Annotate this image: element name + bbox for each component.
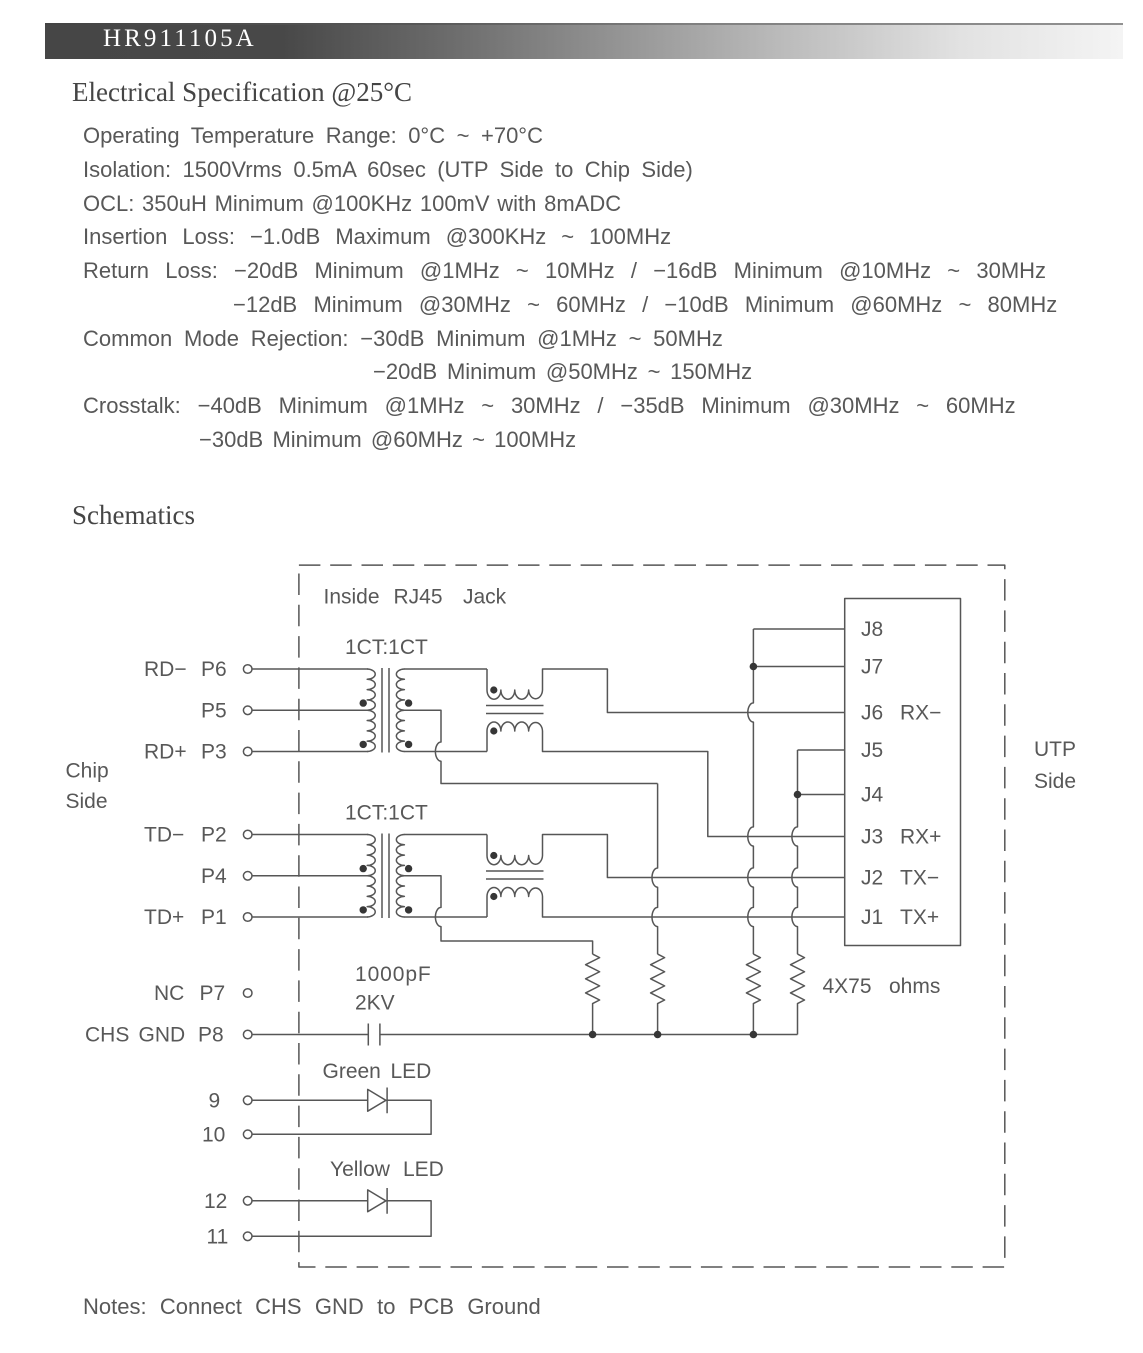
svg-text:LED: LED xyxy=(403,1158,444,1181)
svg-text:11: 11 xyxy=(207,1225,229,1248)
svg-text:TD+: TD+ xyxy=(144,906,184,929)
svg-text:P2: P2 xyxy=(201,824,227,847)
resistor R2 xyxy=(651,954,665,1034)
pin P2 terminal xyxy=(243,830,252,839)
wire J8 xyxy=(753,628,844,630)
svg-text:J6: J6 xyxy=(861,702,883,725)
svg-text:P7: P7 xyxy=(200,982,226,1005)
label Yellow LED xyxy=(330,1158,444,1181)
junction node J4 xyxy=(794,791,802,799)
svg-text:P6: P6 xyxy=(201,658,227,681)
heading: Schematics xyxy=(72,500,195,531)
wire P8 to capacitor C1 xyxy=(252,1034,368,1036)
pin labels chip side xyxy=(85,658,228,1248)
wire J5/J4 vertical to resistor R4, hops over J3 J2 J1 wires xyxy=(792,750,798,954)
pin 11 terminal xyxy=(243,1232,252,1241)
wire T2 secondary top to choke L2 xyxy=(404,834,487,836)
transformer T1 primary winding xyxy=(367,669,375,751)
pin 9 terminal xyxy=(243,1096,252,1105)
wire P6 to transformer T1 xyxy=(252,668,368,670)
svg-text:9: 9 xyxy=(209,1089,221,1112)
transformer T2 polarity dots xyxy=(360,865,413,914)
choke L1 polarity dots xyxy=(490,686,497,734)
svg-text:J7: J7 xyxy=(861,656,883,679)
LED D2 (Yellow) xyxy=(368,1188,387,1214)
svg-text:LED: LED xyxy=(391,1060,432,1083)
wire P2 to transformer T2 xyxy=(252,834,368,836)
junction node R1/bus xyxy=(589,1031,597,1039)
transformer T1 secondary winding xyxy=(396,669,404,751)
svg-text:Chip: Chip xyxy=(66,760,109,783)
wire J8/J7 vertical to resistor R3, hops over J6 J3 J2 J1 wires xyxy=(748,629,754,954)
resistor R1 xyxy=(586,954,600,1034)
svg-text:J2: J2 xyxy=(861,867,883,890)
svg-text:J4: J4 xyxy=(861,784,884,807)
choke L2 bottom winding xyxy=(487,887,845,917)
wire LED D2 to pin 11 xyxy=(252,1201,431,1237)
svg-text:12: 12 xyxy=(204,1190,227,1213)
svg-text:10: 10 xyxy=(202,1123,225,1146)
svg-text:NC: NC xyxy=(154,982,184,1005)
svg-text:Yellow: Yellow xyxy=(330,1158,391,1181)
wire T1 center tap to node, with hop over P3 wire xyxy=(404,710,658,783)
svg-text:P3: P3 xyxy=(201,741,227,764)
label 1000pF 2KV xyxy=(355,963,432,1015)
svg-text:Side: Side xyxy=(66,790,108,813)
resistor R3 xyxy=(746,954,760,1034)
wire LED D1 to pin 10 xyxy=(252,1100,431,1134)
svg-text:Side: Side xyxy=(1034,770,1076,793)
pin 10 terminal xyxy=(243,1130,252,1139)
transformer T1 core xyxy=(382,668,389,753)
svg-text:P1: P1 xyxy=(201,906,227,929)
wire J7 xyxy=(753,666,844,668)
transformer T2 secondary winding xyxy=(396,835,404,917)
ground bus wire from capacitor to resistors xyxy=(380,1034,798,1036)
choke L1 bottom winding xyxy=(487,722,845,837)
label Green LED xyxy=(323,1060,432,1083)
wire T1 secondary bottom to choke L1 xyxy=(404,751,487,753)
svg-text:4X75: 4X75 xyxy=(823,975,872,998)
svg-text:GND: GND xyxy=(139,1024,186,1047)
svg-text:Green: Green xyxy=(323,1060,381,1083)
pin P6 terminal xyxy=(243,665,252,674)
svg-text:J3: J3 xyxy=(861,826,883,849)
wire pin 9 to LED D1 xyxy=(252,1099,368,1101)
wire T1 secondary top to choke L1 xyxy=(404,668,487,670)
connector J1-J8 box xyxy=(845,599,961,946)
svg-text:CHS: CHS xyxy=(85,1024,129,1047)
junction node J7 xyxy=(750,663,758,671)
note line xyxy=(83,1296,541,1318)
wire choke L1 tap vertical to resistor R2, hops over J2 and J1 wires xyxy=(652,784,658,955)
label 4X75 ohms xyxy=(823,975,941,998)
choke L2 polarity dots xyxy=(490,852,497,900)
svg-text:P5: P5 xyxy=(201,699,227,722)
transformer T1 polarity dots xyxy=(360,699,413,748)
svg-text:Jack: Jack xyxy=(463,586,507,609)
svg-text:J8: J8 xyxy=(861,618,883,641)
pin 12 terminal xyxy=(243,1197,252,1206)
labels J1..J8 xyxy=(861,618,941,929)
transformer T2 core xyxy=(382,834,389,919)
svg-text:RD−: RD− xyxy=(144,658,187,681)
svg-text:P8: P8 xyxy=(198,1024,224,1047)
spec text block xyxy=(83,125,543,147)
wire P4 to transformer T2 center tap xyxy=(252,875,368,877)
wire P1 to transformer T2 xyxy=(252,916,368,918)
label: UTP Side xyxy=(1034,738,1076,793)
pin P3 terminal xyxy=(243,747,252,756)
dashed enclosure: Inside RJ45 Jack xyxy=(299,565,1005,1267)
svg-text:Inside: Inside xyxy=(324,586,380,609)
svg-text:UTP: UTP xyxy=(1034,738,1076,761)
svg-text:ohms: ohms xyxy=(889,975,940,998)
svg-text:RJ45: RJ45 xyxy=(394,586,443,609)
choke L2 core xyxy=(486,871,544,879)
svg-text:TD−: TD− xyxy=(144,824,184,847)
wire P5 to transformer T1 center tap xyxy=(252,709,368,711)
svg-text:J5: J5 xyxy=(861,739,883,762)
resistor R4 xyxy=(791,954,805,1034)
header bar xyxy=(45,23,1123,59)
LED D1 (Green) xyxy=(368,1088,387,1114)
pin P4 terminal xyxy=(243,872,252,881)
label: Chip Side xyxy=(66,760,109,814)
svg-text:TX−: TX− xyxy=(900,867,939,890)
pin terminal circles xyxy=(243,665,252,1241)
svg-text:1000pF: 1000pF xyxy=(355,963,432,986)
svg-text:P4: P4 xyxy=(201,865,227,888)
wire P3 to transformer T1 xyxy=(252,751,368,753)
pin P1 terminal xyxy=(243,913,252,922)
svg-text:TX+: TX+ xyxy=(900,906,939,929)
choke L2 top winding xyxy=(487,835,845,878)
capacitor C1 1000pF 2KV xyxy=(368,1024,380,1046)
wire pin 12 to LED D2 xyxy=(252,1200,368,1202)
wire T2 center tap to resistor R1, with hop over P1 wire xyxy=(404,876,593,954)
choke L1 core xyxy=(486,706,544,714)
svg-text:2KV: 2KV xyxy=(355,992,395,1015)
svg-text:1CT:1CT: 1CT:1CT xyxy=(345,802,428,825)
wire J4 xyxy=(798,794,845,796)
choke L1 top winding xyxy=(487,669,845,713)
svg-text:RX−: RX− xyxy=(900,702,941,725)
svg-text:RD+: RD+ xyxy=(144,741,187,764)
transformer T2 primary winding xyxy=(367,835,375,917)
junction node R3/bus xyxy=(750,1031,758,1039)
svg-text:RX+: RX+ xyxy=(900,826,941,849)
wire J5 xyxy=(798,749,845,751)
pin P8 terminal xyxy=(243,1030,252,1039)
label: Inside RJ45 Jack xyxy=(324,586,507,609)
pin P7 terminal xyxy=(243,989,252,998)
wire T2 secondary bottom to choke L2 xyxy=(404,916,487,918)
heading: Electrical Specification xyxy=(72,77,412,108)
svg-text:1CT:1CT: 1CT:1CT xyxy=(345,636,428,659)
junction node R2/bus xyxy=(654,1031,662,1039)
svg-text:J1: J1 xyxy=(861,906,883,929)
pin P5 terminal xyxy=(243,706,252,715)
